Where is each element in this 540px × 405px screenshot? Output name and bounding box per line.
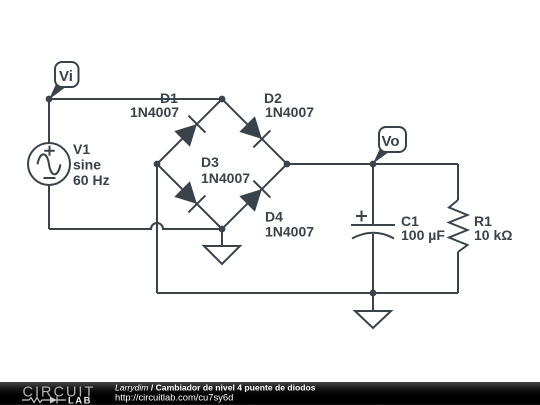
svg-text:100 µF: 100 µF bbox=[401, 227, 445, 243]
svg-text:1N4007: 1N4007 bbox=[201, 170, 250, 186]
svg-text:LAB: LAB bbox=[68, 396, 92, 405]
svg-text:sine: sine bbox=[73, 157, 101, 173]
svg-text:1N4007: 1N4007 bbox=[265, 224, 314, 240]
svg-text:60 Hz: 60 Hz bbox=[73, 172, 110, 188]
svg-text:1N4007: 1N4007 bbox=[130, 104, 179, 120]
svg-text:10 kΩ: 10 kΩ bbox=[474, 227, 512, 243]
svg-text:D3: D3 bbox=[201, 154, 219, 170]
svg-text:Vi: Vi bbox=[59, 68, 73, 85]
svg-text:D4: D4 bbox=[265, 209, 283, 225]
svg-text:http://circuitlab.com/cu7sy6d: http://circuitlab.com/cu7sy6d bbox=[115, 392, 233, 403]
svg-text:Vo: Vo bbox=[382, 133, 400, 150]
svg-text:V1: V1 bbox=[73, 141, 90, 157]
svg-text:1N4007: 1N4007 bbox=[265, 104, 314, 120]
